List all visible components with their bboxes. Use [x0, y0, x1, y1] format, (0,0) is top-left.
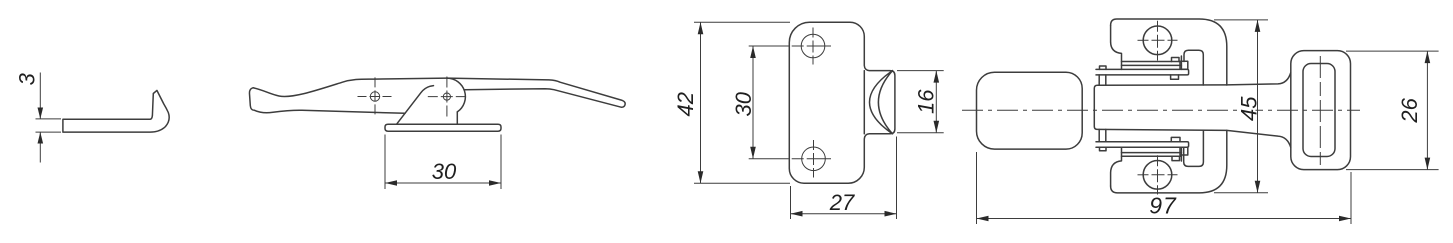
- dim 45 extension lines: [1214, 19, 1268, 21]
- base plate: [385, 124, 501, 131]
- pin tab bottom-left: [1100, 147, 1107, 151]
- bracket left foot bottom: [1111, 147, 1122, 186]
- bracket triangle: [397, 86, 458, 125]
- dim 3 stem below: [39, 132, 41, 162]
- pin bar top: [1096, 69, 1189, 75]
- bracket left foot top: [1111, 25, 1122, 69]
- dim 42 extension bottom: [694, 182, 790, 184]
- pedestal edge bottom: [1122, 155, 1182, 157]
- hole B crosshair vertical: [813, 140, 815, 178]
- dim 3 arrow up: [38, 132, 44, 143]
- handle stadium: [977, 72, 1083, 149]
- dim 3 extension line top: [36, 118, 62, 120]
- boss bottom crosshair: [1138, 174, 1178, 176]
- centerline: [962, 109, 1360, 111]
- pin tab top-left: [1100, 66, 1107, 69]
- pin tab bottom above-bar right: [1171, 137, 1180, 141]
- lever plate: [1094, 73, 1291, 148]
- dim 27 line: [791, 213, 897, 215]
- pin bar bottom: [1096, 142, 1189, 148]
- dim 3 extension line bottom: [36, 131, 62, 133]
- svg-text:3: 3: [14, 72, 39, 85]
- dim 97 extension lines: [976, 152, 978, 224]
- hole T crosshair vertical: [812, 28, 814, 65]
- svg-text:16: 16: [913, 89, 938, 114]
- pin legs bottom: [1098, 129, 1100, 141]
- hole H1 crosshair: [358, 96, 393, 98]
- boss saddle crescent: [870, 71, 893, 134]
- svg-text:30: 30: [432, 159, 457, 184]
- handle outline: [249, 78, 446, 113]
- pedestal vertical right bottom: [1180, 147, 1182, 161]
- dim 42 line: [700, 22, 702, 183]
- svg-text:27: 27: [829, 190, 855, 215]
- arch top: [1184, 50, 1203, 85]
- pin tab bottom-right a: [1172, 156, 1180, 160]
- pedestal edge top: [1122, 61, 1182, 63]
- pin legs top: [1098, 75, 1100, 85]
- hole H1: [370, 92, 379, 101]
- dim 30 extension top (hole centreline): [749, 45, 831, 47]
- latch arm: [447, 78, 625, 107]
- loop crosshair vertical: [1319, 56, 1321, 165]
- B1 strip top: [1122, 64, 1182, 66]
- dim 42 arrows: [698, 22, 704, 34]
- bracket outline bottom: [1111, 130, 1227, 193]
- dim 97 arrows: [977, 216, 989, 222]
- boss top crosshair: [1138, 39, 1178, 41]
- dim 27 extension lines: [790, 186, 792, 219]
- dim 30 line: [752, 46, 754, 159]
- dim 45 arrows: [1255, 20, 1261, 32]
- hole T: [801, 34, 825, 58]
- pin tab bottom-right b: [1180, 147, 1188, 155]
- dim 26 arrows: [1425, 51, 1431, 63]
- dim 30 arrows: [750, 46, 756, 58]
- dim 16 line: [935, 71, 937, 133]
- dim 3 arrow down: [38, 108, 44, 119]
- svg-text:97: 97: [1149, 193, 1177, 219]
- bracket outline top: [1111, 19, 1227, 85]
- hole H2: [443, 93, 450, 100]
- loop inner slot: [1303, 64, 1335, 157]
- hole B: [802, 147, 826, 171]
- svg-text:26: 26: [1397, 97, 1422, 123]
- dim 16 arrows: [934, 71, 940, 83]
- svg-text:42: 42: [673, 92, 698, 116]
- screw boss bottom circle: [1143, 161, 1172, 190]
- plate right edge through boss: [863, 71, 865, 134]
- label 45 backing: [1239, 92, 1256, 126]
- svg-text:30: 30: [731, 91, 756, 116]
- dim 16 extension lines: [897, 70, 944, 72]
- loop outer: [1291, 51, 1351, 170]
- pin tab top-right b: [1180, 61, 1188, 69]
- dim 45 line: [1257, 20, 1259, 193]
- hole H2 crosshair: [428, 96, 466, 98]
- pedestal vertical right top: [1180, 56, 1182, 69]
- pivot cap arc: [447, 78, 466, 112]
- dim 30 extension bottom: [749, 158, 831, 160]
- dim 3 stem above: [39, 73, 41, 119]
- dim 30 extension lines: [384, 135, 386, 190]
- dim 42 extension top: [694, 21, 790, 23]
- arch bottom: [1184, 130, 1204, 166]
- dim 26 extension lines: [1346, 50, 1439, 52]
- pin tab top-right a: [1172, 58, 1180, 62]
- screw boss top circle: [1143, 26, 1172, 55]
- B1 strip bottom: [1122, 152, 1182, 154]
- svg-text:45: 45: [1236, 96, 1261, 121]
- plate outline: [789, 22, 895, 183]
- hook outline: [63, 90, 169, 132]
- dim 27 arrows: [791, 211, 803, 217]
- dim 26 line: [1426, 51, 1428, 170]
- dim 30 line: [385, 182, 501, 184]
- dim 30 arrows: [385, 180, 397, 186]
- dim 97 line: [977, 218, 1352, 220]
- pin tab below bar right: [1171, 75, 1179, 79]
